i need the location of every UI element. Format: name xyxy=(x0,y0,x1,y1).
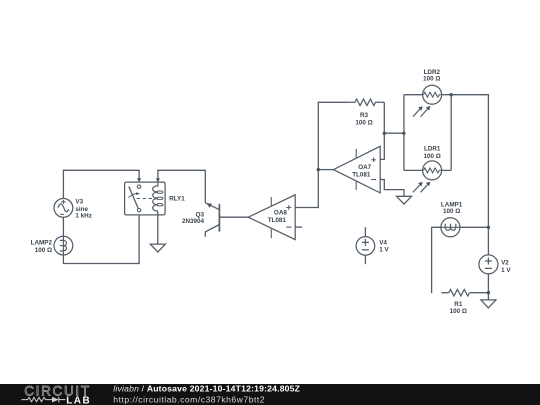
svg-text:100 Ω: 100 Ω xyxy=(424,153,441,160)
svg-text:2N3904: 2N3904 xyxy=(182,218,205,225)
svg-text:TL081: TL081 xyxy=(268,217,287,224)
svg-text:RLY1: RLY1 xyxy=(169,196,185,203)
svg-text:100 Ω: 100 Ω xyxy=(423,76,440,83)
svg-text:1 V: 1 V xyxy=(501,267,511,274)
svg-text:100 Ω: 100 Ω xyxy=(443,208,460,215)
svg-text:1 kHz: 1 kHz xyxy=(75,213,91,220)
svg-text:100 Ω: 100 Ω xyxy=(35,247,52,254)
svg-text:100 Ω: 100 Ω xyxy=(450,308,467,315)
svg-text:1 V: 1 V xyxy=(379,247,389,254)
svg-text:V2: V2 xyxy=(501,260,509,267)
svg-text:OA8: OA8 xyxy=(274,209,287,216)
svg-text:TL081: TL081 xyxy=(352,172,371,179)
svg-text:OA7: OA7 xyxy=(358,164,371,171)
svg-text:V4: V4 xyxy=(379,239,387,246)
svg-text:V3: V3 xyxy=(75,199,83,206)
svg-text:100 Ω: 100 Ω xyxy=(355,120,372,127)
svg-text:LDR1: LDR1 xyxy=(424,145,441,152)
svg-text:R3: R3 xyxy=(360,112,369,119)
svg-text:http://circuitlab.com/c387kh6w: http://circuitlab.com/c387kh6w7btt2 xyxy=(113,394,265,404)
svg-text:liviabn / Autosave 2021-10-14T: liviabn / Autosave 2021-10-14T12:19:24.8… xyxy=(113,383,300,393)
svg-text:LAMP2: LAMP2 xyxy=(31,240,53,247)
svg-text:LAB: LAB xyxy=(66,395,91,405)
